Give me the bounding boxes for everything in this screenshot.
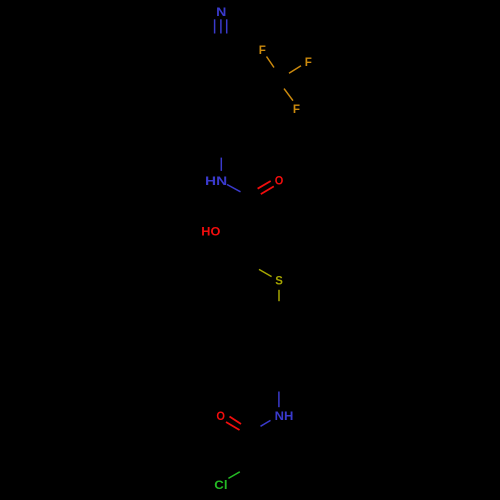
- svg-text:HN: HN: [205, 174, 227, 187]
- svg-text:NH: NH: [275, 409, 294, 422]
- svg-text:N: N: [216, 5, 226, 19]
- svg-text:F: F: [259, 43, 266, 57]
- svg-text:Cl: Cl: [214, 479, 227, 492]
- svg-text:O: O: [275, 175, 284, 187]
- svg-text:F: F: [305, 55, 312, 69]
- svg-text:S: S: [275, 274, 283, 287]
- svg-text:F: F: [293, 102, 300, 116]
- svg-text:O: O: [216, 411, 225, 423]
- svg-text:HO: HO: [201, 225, 220, 239]
